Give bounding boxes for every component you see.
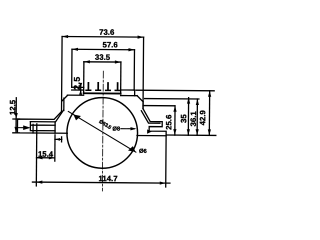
svg-text:12.5: 12.5 [8,99,17,115]
svg-text:Ø8: Ø8 [112,127,121,133]
svg-text:Ø63.5: Ø63.5 [98,119,113,131]
svg-text:57.6: 57.6 [102,40,118,49]
svg-text:Ø6: Ø6 [139,149,148,155]
svg-text:2.5: 2.5 [72,76,82,90]
svg-text:114.7: 114.7 [98,174,117,183]
svg-text:25.6: 25.6 [164,114,173,130]
svg-text:15.4: 15.4 [38,150,54,159]
svg-text:42.9: 42.9 [198,110,207,126]
svg-text:73.6: 73.6 [99,28,115,37]
svg-text:35: 35 [179,114,188,123]
svg-text:36.1: 36.1 [189,111,198,127]
svg-text:33.5: 33.5 [95,53,111,62]
